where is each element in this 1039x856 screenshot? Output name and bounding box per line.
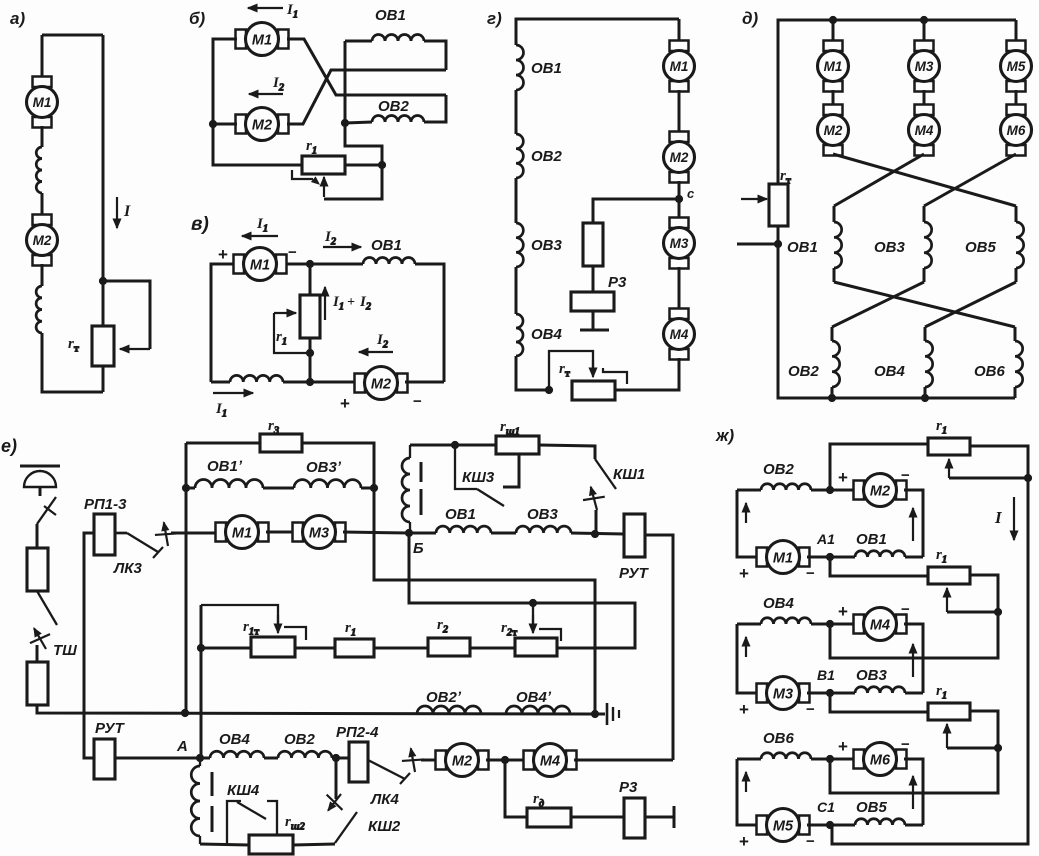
svg-text:ОВ2ʼ: ОВ2ʼ — [426, 689, 462, 706]
wiper step — [603, 368, 627, 384]
svg-text:rд: rд — [533, 791, 544, 810]
wire — [678, 267, 681, 310]
svg-text:М6: М6 — [870, 753, 891, 769]
field winding OB2 — [278, 751, 332, 758]
wiper lead — [292, 170, 319, 184]
current arrow — [742, 637, 750, 657]
plus — [340, 394, 350, 413]
svg-text:В1: В1 — [817, 667, 835, 683]
svg-text:ОВ1: ОВ1 — [375, 7, 406, 24]
svg-text:ОВ5: ОВ5 — [856, 799, 888, 816]
plus — [739, 832, 749, 851]
svg-text:+: + — [739, 832, 749, 851]
current arrow — [742, 772, 750, 792]
wire — [309, 264, 312, 295]
rheostat r_т — [572, 381, 615, 400]
field winding OB1p — [195, 480, 263, 489]
node — [774, 240, 781, 247]
svg-text:+: + — [347, 295, 355, 310]
svg-text:rш2: rш2 — [285, 814, 306, 833]
node — [529, 599, 536, 606]
wire — [905, 556, 923, 559]
label P3 — [619, 779, 638, 796]
wire — [571, 533, 624, 534]
svg-text:−: − — [288, 244, 297, 261]
motor М3 — [909, 41, 940, 92]
svg-text:ОВ2: ОВ2 — [763, 461, 795, 478]
wire — [470, 647, 515, 650]
svg-text:ОВ2: ОВ2 — [284, 731, 316, 748]
field winding ОВ6 — [761, 753, 811, 759]
wire — [200, 605, 203, 758]
wire — [778, 20, 1016, 184]
svg-text:−: − — [806, 565, 815, 582]
svg-text:r1: r1 — [936, 418, 947, 437]
svg-text:б): б) — [189, 9, 206, 28]
field winding ОВ1 — [855, 551, 905, 557]
wire — [830, 711, 998, 793]
wire — [374, 647, 428, 650]
wire — [41, 126, 44, 147]
label r2t — [501, 620, 518, 639]
svg-text:r1: r1 — [345, 620, 356, 639]
svg-text:I2: I2 — [272, 75, 285, 94]
label OB3 — [527, 506, 559, 523]
wiper arrow — [943, 724, 951, 748]
label ОВ2 — [763, 461, 795, 478]
svg-text:−: − — [413, 393, 422, 410]
plus — [739, 700, 749, 719]
label r_т — [780, 168, 792, 187]
field winding ОВ4 — [761, 618, 811, 624]
wiper step — [284, 627, 306, 640]
motor M3 — [664, 218, 695, 269]
wire from M2 to OB5 — [833, 154, 1016, 206]
wire — [211, 381, 230, 384]
contact blade LK3 — [115, 533, 163, 558]
label I1+I2 — [332, 294, 372, 313]
resistor r_d — [527, 808, 571, 827]
node — [826, 486, 833, 493]
svg-text:М2: М2 — [824, 123, 843, 138]
plus — [739, 564, 749, 583]
wire — [737, 243, 778, 246]
svg-text:ОВ4: ОВ4 — [219, 731, 251, 748]
section label г) — [487, 9, 502, 28]
wire — [615, 358, 679, 390]
wire — [515, 178, 518, 223]
wire — [409, 533, 635, 648]
svg-text:М5: М5 — [773, 819, 794, 835]
motor М5 — [757, 809, 810, 842]
wire — [295, 647, 335, 650]
wiper arrow — [320, 177, 328, 197]
wire — [515, 90, 518, 134]
wire — [415, 264, 444, 382]
motor М2 — [818, 105, 849, 156]
wire — [830, 693, 928, 712]
wire — [923, 268, 926, 282]
wire — [904, 490, 923, 557]
wire — [1015, 268, 1018, 282]
wire — [592, 311, 595, 330]
label r1 — [345, 620, 356, 639]
svg-text:ОВ6: ОВ6 — [974, 363, 1006, 380]
svg-text:М4: М4 — [670, 327, 689, 342]
node — [306, 260, 313, 267]
field winding OB2p — [417, 706, 481, 714]
label С1 — [817, 799, 835, 815]
svg-text:+: + — [838, 737, 848, 756]
rheostat r1 — [300, 295, 320, 338]
wire — [409, 532, 436, 535]
svg-text:I1: I1 — [215, 401, 227, 420]
wire — [213, 123, 237, 126]
label ОВ5 — [965, 239, 997, 256]
wire — [424, 41, 446, 70]
wire — [211, 264, 234, 382]
svg-text:РУТ: РУТ — [619, 565, 650, 582]
label r2 — [437, 617, 449, 636]
svg-text:А: А — [176, 738, 188, 755]
node — [828, 394, 835, 401]
field winding OB2 — [516, 134, 523, 178]
field winding OB1 — [363, 258, 415, 265]
wire — [345, 122, 372, 123]
wire — [1015, 206, 1018, 222]
label I1 — [256, 216, 268, 235]
label r1t — [243, 619, 260, 638]
node — [306, 378, 313, 385]
node — [501, 756, 508, 763]
field winding ОВ2 — [761, 484, 811, 490]
node C — [675, 195, 682, 202]
node — [591, 530, 598, 537]
motor M3 — [293, 516, 346, 549]
wire — [115, 757, 200, 760]
wire — [832, 90, 835, 106]
current arrow I1 — [213, 389, 253, 397]
wire — [201, 647, 251, 650]
plus — [838, 602, 848, 621]
motor М6 — [854, 743, 907, 776]
svg-text:М1: М1 — [824, 59, 843, 74]
field winding ОВ2 — [832, 341, 840, 387]
wire from M4 to OB1 — [834, 154, 924, 206]
wire — [830, 557, 928, 576]
minus — [806, 701, 815, 718]
svg-text:РП1-3: РП1-3 — [84, 496, 127, 513]
field winding OB3 — [516, 223, 523, 267]
svg-text:rт: rт — [780, 168, 792, 187]
wiper arrow — [274, 309, 296, 317]
contact blade KSh2 — [335, 812, 357, 843]
resistor — [27, 662, 48, 705]
resistor r_sh2 — [249, 835, 293, 854]
wire — [737, 623, 761, 626]
wire — [593, 199, 679, 223]
svg-text:ОВ1: ОВ1 — [371, 237, 402, 254]
motor M1 — [216, 516, 269, 549]
node — [181, 709, 188, 716]
label ОВ1 — [787, 239, 818, 256]
rheostat r2t — [515, 638, 557, 656]
node — [1024, 474, 1031, 481]
node — [921, 394, 928, 401]
label r_d — [533, 791, 544, 810]
svg-text:а): а) — [10, 9, 25, 28]
svg-text:Р3: Р3 — [608, 274, 627, 291]
minus — [901, 467, 910, 484]
label OB1 — [371, 237, 402, 254]
inductor winding — [36, 147, 42, 193]
wiper lead — [949, 477, 1028, 480]
node — [829, 16, 836, 23]
wire — [410, 444, 496, 447]
svg-text:в): в) — [191, 214, 209, 235]
svg-text:−: − — [901, 736, 910, 753]
resistor r1 — [335, 639, 374, 657]
node — [332, 754, 339, 761]
contact arrow LK3 — [155, 522, 177, 546]
wire — [515, 267, 518, 314]
svg-text:КШ1: КШ1 — [613, 466, 645, 483]
minus — [901, 736, 910, 753]
plus — [838, 468, 848, 487]
wire — [811, 489, 856, 492]
wire — [833, 268, 836, 282]
field winding OB4 — [516, 314, 523, 356]
wire — [924, 387, 927, 398]
wire — [345, 40, 372, 43]
node В1 — [826, 689, 833, 696]
node — [994, 608, 1001, 615]
svg-text:ОВ2: ОВ2 — [531, 148, 563, 165]
wiper arrow — [120, 345, 150, 353]
label OB4 — [531, 326, 563, 343]
label r1 — [276, 329, 287, 348]
field winding ОВ3 — [924, 222, 932, 268]
field winding ОВ5 — [1016, 222, 1024, 268]
label r_sh1 — [500, 419, 520, 438]
svg-text:М2: М2 — [670, 150, 689, 165]
wire — [200, 844, 249, 845]
wire — [505, 760, 527, 817]
label I2 — [376, 332, 389, 351]
wire — [737, 490, 759, 557]
svg-text:−: − — [806, 701, 815, 718]
wiper arrow — [589, 360, 597, 377]
wire — [592, 266, 595, 292]
label ОВ3 — [874, 239, 906, 256]
current arrow — [909, 508, 917, 541]
svg-text:М1: М1 — [670, 59, 689, 74]
wire — [102, 35, 105, 326]
svg-text:ОВ2: ОВ2 — [378, 98, 410, 115]
svg-text:ОВ4: ОВ4 — [874, 363, 906, 380]
wire — [737, 624, 759, 693]
wire — [264, 757, 278, 760]
motor M4 — [524, 744, 577, 777]
field winding ОВ6 — [1015, 341, 1023, 387]
wire — [645, 535, 673, 760]
wire — [266, 531, 295, 534]
label OB1 — [375, 7, 406, 24]
wire — [830, 824, 855, 827]
label LK4 — [370, 791, 400, 808]
wire — [491, 532, 516, 535]
node — [994, 744, 1001, 751]
label ОВ3 — [856, 667, 888, 684]
section label в) — [191, 214, 209, 235]
field winding ОВ4 — [925, 341, 933, 387]
minus — [413, 393, 422, 410]
label C — [687, 186, 695, 201]
svg-text:ОВ1: ОВ1 — [531, 60, 562, 77]
wire — [516, 356, 549, 390]
wire — [263, 487, 294, 490]
svg-text:КШ4: КШ4 — [227, 782, 260, 799]
motor M2 — [355, 367, 408, 400]
resistor r1 — [928, 703, 970, 720]
resistor — [583, 223, 603, 266]
motor M4 — [664, 309, 695, 360]
wiper arrow — [945, 459, 953, 478]
svg-text:r2т: r2т — [501, 620, 518, 639]
svg-text:М1: М1 — [232, 526, 252, 542]
wire — [186, 487, 195, 490]
current arrow I1 — [242, 232, 278, 240]
plus — [218, 245, 228, 264]
svg-text:М3: М3 — [309, 526, 329, 542]
rheostat r_т — [769, 184, 788, 226]
node — [209, 120, 216, 127]
wire — [923, 206, 926, 222]
current arrow — [909, 644, 917, 677]
wire — [737, 759, 759, 825]
svg-text:−: − — [901, 467, 910, 484]
svg-text:ОВ4: ОВ4 — [763, 595, 795, 612]
svg-text:ТШ: ТШ — [53, 642, 77, 659]
svg-text:r1: r1 — [306, 138, 317, 157]
label I1 — [286, 2, 298, 21]
wire — [36, 645, 39, 662]
section label а) — [10, 9, 25, 28]
inductive shunt — [402, 445, 421, 533]
motor М5 — [1001, 41, 1032, 92]
inductor winding — [36, 286, 42, 333]
label r1 — [306, 138, 317, 157]
field winding OB4 — [210, 751, 264, 758]
label r1 — [936, 683, 947, 702]
svg-text:М1: М1 — [33, 95, 52, 110]
label KSh1 — [613, 466, 645, 483]
wire — [811, 623, 856, 626]
wire — [1014, 327, 1017, 341]
wire — [923, 20, 926, 42]
wire — [103, 281, 150, 349]
svg-text:rт: rт — [68, 336, 80, 355]
label ОВ1 — [856, 531, 887, 548]
label ОВ4 — [763, 595, 795, 612]
node B — [405, 529, 412, 536]
wire from OB1 to OB6 — [834, 282, 1015, 327]
wiper lead — [274, 313, 310, 353]
wire — [343, 532, 409, 533]
motor М4 — [854, 608, 907, 641]
svg-text:КШ2: КШ2 — [368, 818, 401, 835]
ground — [595, 703, 619, 725]
svg-text:ОВ1: ОВ1 — [445, 506, 476, 523]
wire — [574, 759, 673, 762]
svg-text:РП2-4: РП2-4 — [336, 724, 379, 741]
svg-text:+: + — [739, 700, 749, 719]
svg-text:е): е) — [1, 436, 17, 456]
label RUT — [619, 565, 650, 582]
svg-text:М2: М2 — [452, 754, 472, 770]
svg-text:+: + — [218, 245, 228, 264]
label ОВ4 — [874, 363, 906, 380]
label I — [994, 508, 1003, 527]
wire — [302, 443, 595, 714]
node — [197, 644, 204, 651]
node — [182, 484, 189, 491]
wire — [678, 181, 681, 219]
field winding OB1 — [516, 45, 524, 90]
contact arrow LK4 — [402, 748, 424, 772]
wire — [1015, 90, 1018, 106]
field winding ОВ5 — [855, 819, 905, 825]
minus — [806, 565, 815, 582]
wire — [807, 824, 830, 827]
wire — [539, 445, 595, 459]
wire — [171, 532, 218, 535]
node — [451, 441, 458, 448]
svg-text:−: − — [901, 601, 910, 618]
label OB2 — [284, 731, 316, 748]
wire — [213, 39, 301, 165]
minus — [901, 601, 910, 618]
motor M2 — [436, 744, 489, 777]
svg-text:М4: М4 — [540, 754, 560, 770]
svg-text:Б: Б — [413, 540, 424, 557]
wire — [737, 758, 761, 761]
terminal bar — [580, 329, 609, 332]
motor М1 — [818, 41, 849, 92]
disconnector blade — [37, 497, 56, 524]
current arrow I2 — [249, 90, 283, 98]
label RUT — [95, 720, 126, 737]
svg-text:−: − — [806, 833, 815, 850]
label TSh — [53, 642, 77, 659]
label r1 — [936, 547, 947, 566]
node С1 — [826, 821, 833, 828]
svg-text:РУТ: РУТ — [95, 720, 126, 737]
label I2 — [324, 229, 337, 248]
contact KSh3 — [455, 445, 504, 506]
wire — [286, 263, 363, 266]
wire — [905, 824, 923, 827]
node — [99, 277, 106, 284]
wire — [807, 692, 830, 695]
current arrow — [742, 503, 750, 523]
wire — [595, 510, 598, 534]
motor М2 — [854, 474, 907, 507]
svg-text:r1: r1 — [276, 329, 287, 348]
wire from M6 to OB3 — [924, 154, 1016, 206]
wire — [424, 95, 446, 122]
wire — [345, 164, 382, 167]
